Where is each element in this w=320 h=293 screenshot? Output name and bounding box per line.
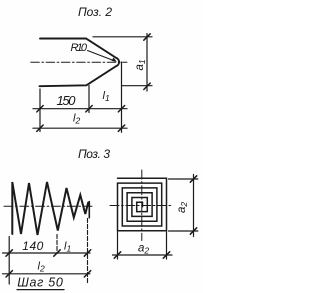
svg-text:Поз. 3: Поз. 3 <box>78 147 110 161</box>
svg-text:a2: a2 <box>138 243 149 256</box>
svg-text:150: 150 <box>57 93 77 108</box>
svg-text:a1: a1 <box>134 59 147 70</box>
svg-text:l1: l1 <box>64 241 71 254</box>
svg-text:R10: R10 <box>71 42 88 54</box>
svg-text:a2: a2 <box>176 202 189 213</box>
svg-text:l1: l1 <box>103 90 110 103</box>
svg-text:l2: l2 <box>38 261 45 274</box>
svg-text:l2: l2 <box>73 113 80 126</box>
svg-text:Шаг 50: Шаг 50 <box>17 276 63 290</box>
svg-text:Поз. 2: Поз. 2 <box>78 5 112 19</box>
svg-text:140: 140 <box>22 239 43 253</box>
